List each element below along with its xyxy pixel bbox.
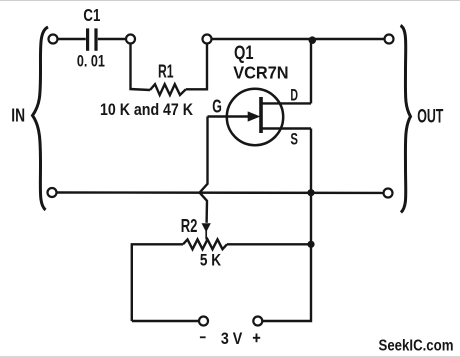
svg-text:Q1: Q1 [234,43,254,64]
terminal battery plus [253,317,262,326]
bottom scan hairline [0,356,460,358]
terminal OUT bottom [384,189,393,198]
terminal IN top [49,35,58,44]
junction dot drain/top rail [309,36,317,44]
wire R2 right [227,243,311,245]
wire drain riser [310,39,312,103]
svg-text:IN: IN [11,105,25,126]
wire to R1 [130,89,151,90]
svg-text:OUT: OUT [417,105,443,127]
top rail wire [212,38,385,40]
wire C1 to node [98,38,126,40]
node circle after C1 [126,35,135,44]
svg-text:R1: R1 [158,61,174,81]
wire riser up to node [206,44,208,91]
wire R1 to right riser [186,88,208,90]
svg-text:G: G [212,97,222,117]
wire R2 left [132,244,183,321]
wire source riser down to bottom [262,129,311,322]
wire drain horizontal [261,102,311,104]
node circle top rail left [203,35,212,44]
svg-text:D: D [290,87,298,105]
terminal OUT top [385,35,394,44]
battery minus sign [200,336,206,338]
junction dot R2/source riser [307,241,314,248]
wiper arrowhead [202,223,211,239]
svg-text:R2: R2 [181,215,198,236]
svg-text:S: S [290,131,298,149]
svg-text:10 K and 47 K: 10 K and 47 K [100,100,193,119]
middle rail wire [57,191,384,194]
resistor R2 [183,239,227,249]
junction dot source/rail [307,189,314,196]
IN brace [33,27,49,210]
wire bottom left to battery minus [132,320,199,322]
OUT brace [401,26,411,213]
wire source horizontal [261,127,311,129]
svg-text:SeekIC.com: SeekIC.com [379,338,454,355]
svg-text:3 V: 3 V [221,329,243,348]
capacitor C1 [88,28,96,50]
wire gate down with kink at rail [200,117,208,223]
svg-text:0. 01: 0. 01 [77,53,105,71]
top scan hairline [0,0,460,2]
wire node down to R1 level [129,44,131,91]
transistor Q1 circle [227,89,283,145]
Q1 channel bar [259,97,263,133]
svg-text:5 K: 5 K [200,250,221,269]
wire IN top to C1 [58,38,86,40]
terminal IN bottom [48,188,57,197]
svg-text:VCR7N: VCR7N [233,62,288,82]
Q1 gate arrow [208,111,261,121]
battery plus sign [253,334,260,343]
resistor R1 [150,84,186,95]
svg-text:C1: C1 [83,5,100,25]
terminal battery minus [199,317,208,326]
